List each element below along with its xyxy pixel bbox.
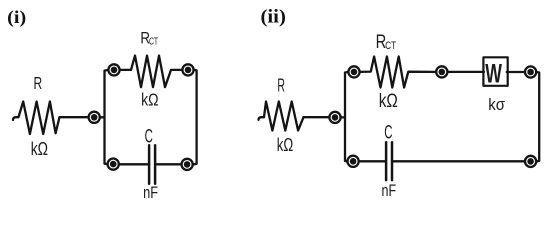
wire node A to left rail (circuit i) [101,116,105,118]
capacitor C (circuit ii) [386,142,392,180]
node bottom-right (circuit i) [182,159,193,170]
svg-text:(i): (i) [7,7,26,28]
wire right rail (circuit i) [194,70,197,164]
node middle (circuit ii, between RCT and W) [436,66,447,77]
node bottom-left (circuit ii) [348,156,359,167]
node A junction (circuit i) [89,112,100,123]
svg-text:C: C [145,127,153,148]
wire capacitor to node (circuit i) [156,163,181,165]
resistor R (circuit ii) [259,102,304,131]
node bottom-left (circuit i) [108,159,119,170]
wire R to node A (circuit i) [60,116,89,118]
svg-text:W: W [485,59,502,89]
svg-text:R: R [34,73,43,93]
wire left rail (circuit ii) [345,72,348,161]
svg-text:kσ: kσ [488,95,505,114]
wire capacitor to node (circuit ii) [393,160,525,162]
svg-text:kΩ: kΩ [379,90,398,112]
node top-left (circuit ii) [348,66,359,77]
node top-left (circuit i) [108,64,119,75]
wire right rail (circuit ii) [537,72,539,161]
node top-right (circuit i) [182,64,193,75]
node top-right (circuit ii) [525,66,536,77]
capacitor C (circuit i) [149,145,155,184]
wire Warburg box to node (circuit ii) [507,71,525,73]
svg-text:nF: nF [143,183,158,202]
svg-text:kΩ: kΩ [31,139,48,159]
resistor RCT (circuit ii) [360,57,435,88]
Warburg element W box (circuit ii) [483,57,507,86]
svg-text:(ii): (ii) [260,7,285,28]
wire R to node B (circuit ii) [304,116,330,118]
svg-text:R: R [277,75,285,96]
wire node to capacitor (circuit i) [120,163,149,165]
wire node B to left rail (circuit ii) [341,116,345,118]
node bottom-right (circuit ii) [525,156,536,167]
resistor R (circuit i) [13,102,60,135]
wire left rail (circuit i) [105,70,108,164]
svg-text:CT: CT [385,40,396,52]
svg-text:nF: nF [382,181,397,200]
svg-text:kΩ: kΩ [141,90,158,110]
wire node to capacitor (circuit ii) [359,160,385,162]
svg-text:kΩ: kΩ [277,134,293,155]
svg-text:C: C [384,122,392,143]
node B junction (circuit ii) [329,112,340,123]
svg-text:CT: CT [149,36,159,47]
wire node to Warburg box (circuit ii) [448,71,484,73]
resistor RCT (circuit i) [121,56,182,88]
